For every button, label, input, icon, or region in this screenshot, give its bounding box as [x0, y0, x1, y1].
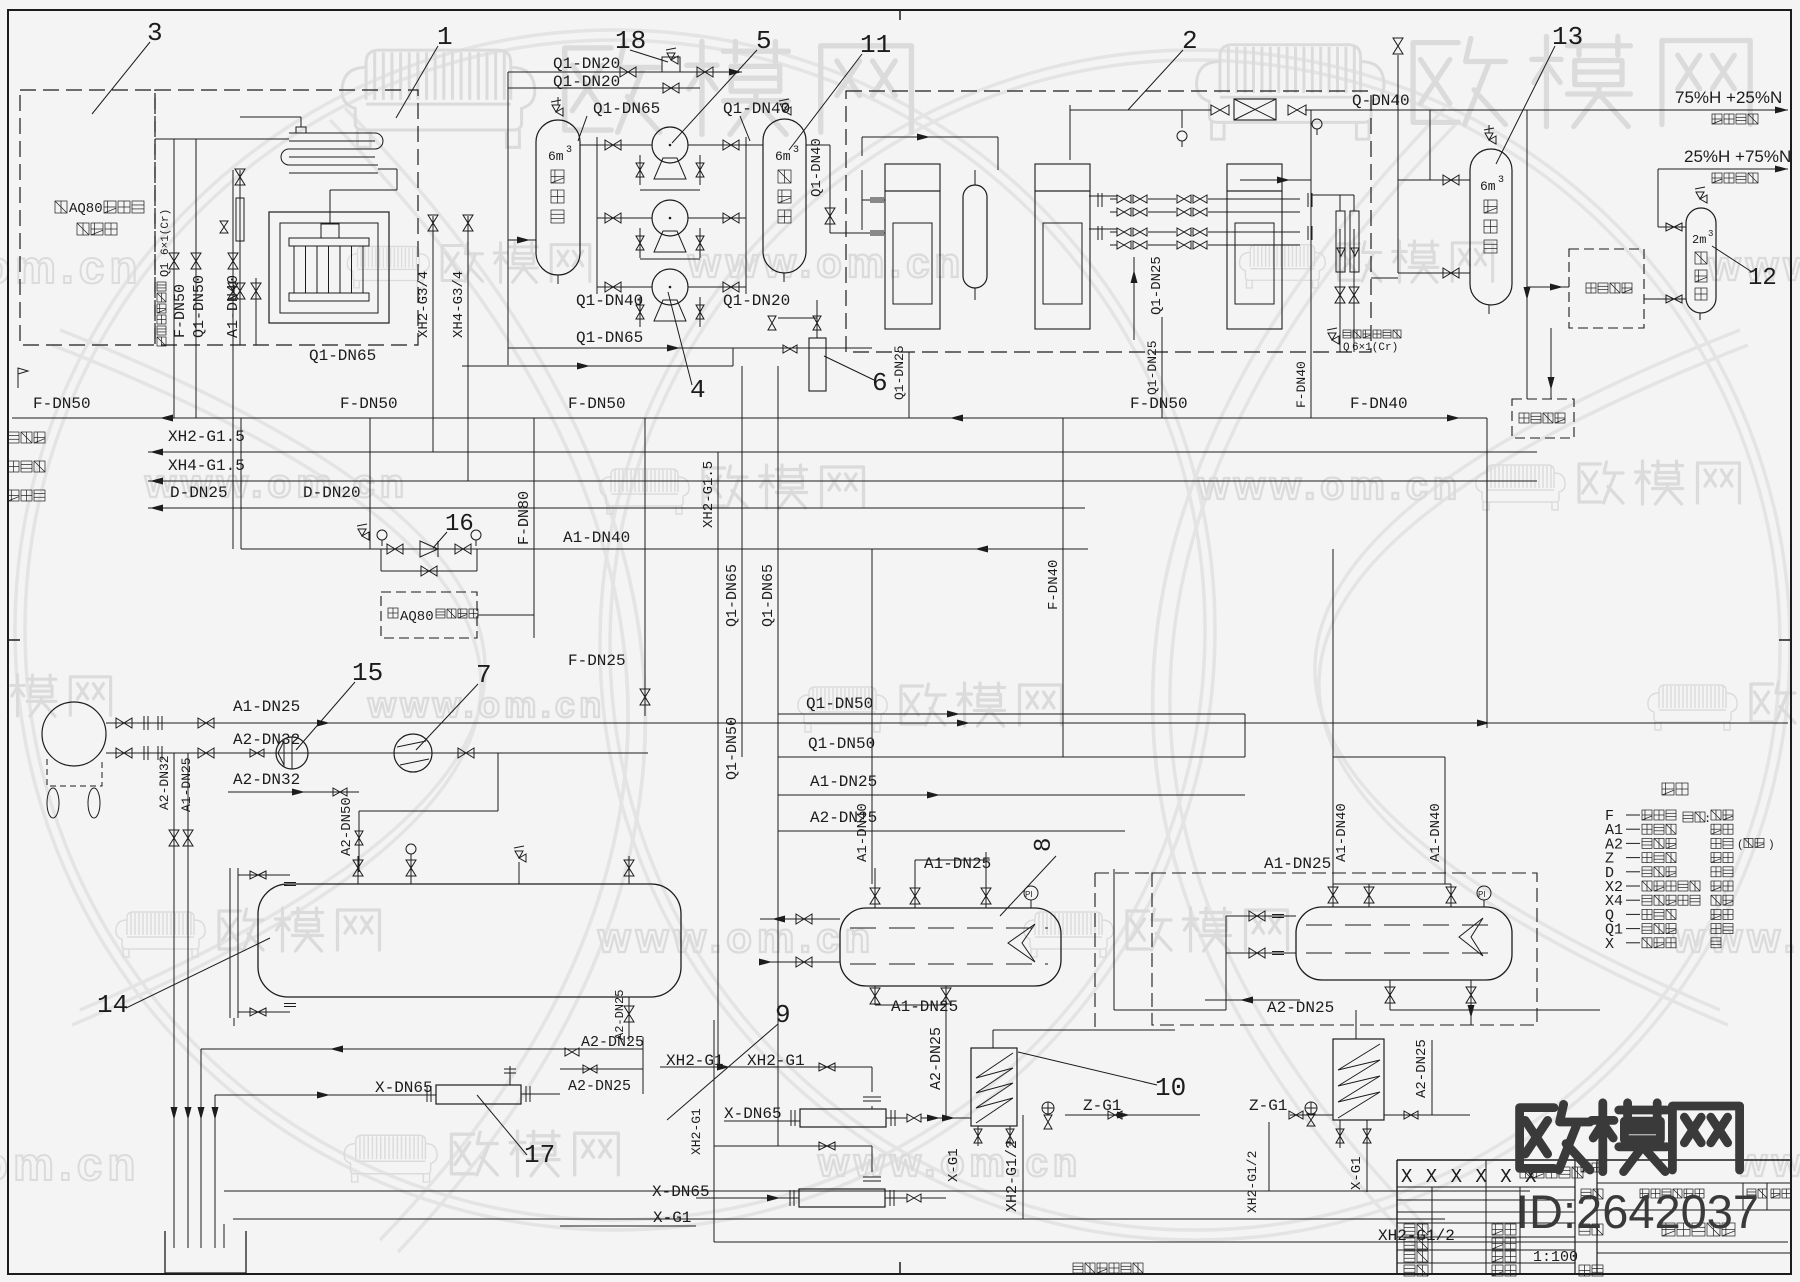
pump 7 — [394, 734, 432, 772]
vertical Q1-DN25 in box2 — [1133, 257, 1135, 340]
pipe Q1-DN50 upper — [778, 713, 1245, 715]
dashed box - nitrogen purification — [1512, 399, 1574, 438]
svg-text:Q1-DN20: Q1-DN20 — [723, 292, 790, 310]
supply line XH4-G1.5 — [148, 480, 1537, 482]
tank 8 top valves — [874, 884, 876, 908]
svg-text:XH2-G1.5: XH2-G1.5 — [701, 461, 717, 528]
svg-text:Q1-DN65: Q1-DN65 — [593, 100, 660, 118]
svg-text:Q1-DN25: Q1-DN25 — [1145, 340, 1160, 395]
svg-text:Q1: Q1 — [158, 263, 172, 277]
svg-text:Q1-DN20: Q1-DN20 — [553, 73, 620, 91]
riser A1-DN40 mid — [871, 549, 873, 884]
svg-text:Q1-DN65: Q1-DN65 — [309, 347, 376, 365]
svg-text:Z-G1: Z-G1 — [1249, 1097, 1287, 1115]
riser Q1-DN65 b — [777, 366, 779, 1146]
pipe into right tank area — [1205, 999, 1300, 1001]
title block row labels — [1581, 1189, 1591, 1199]
pump manifolds — [596, 137, 598, 294]
long bottom lines — [224, 1190, 1530, 1192]
svg-text:A2-DN25: A2-DN25 — [1267, 999, 1334, 1017]
svg-text:XH4-G3/4: XH4-G3/4 — [451, 271, 467, 338]
watermark row1 — [342, 50, 535, 147]
water tank — [165, 1231, 246, 1273]
heat exchanger 10 — [971, 1048, 1017, 1126]
left flag vent — [18, 368, 28, 388]
AQ80 box connector — [477, 614, 534, 616]
dashed box - gas mixing room — [1569, 249, 1644, 328]
svg-text:Q1-DN50: Q1-DN50 — [724, 717, 741, 780]
right tank left inlet valves — [1226, 915, 1296, 917]
tank 14 bottom nozzle — [628, 997, 630, 1041]
tank 8 bottom — [874, 986, 876, 1005]
svg-text:XH2-G3/4: XH2-G3/4 — [416, 271, 432, 338]
svg-text:XH2-G1/2: XH2-G1/2 — [1004, 1140, 1021, 1212]
pipe F-DN25 stub — [644, 418, 646, 716]
piping above U1 — [861, 137, 863, 156]
pump bypass frame — [640, 189, 700, 191]
svg-text:Q1-DN65: Q1-DN65 — [760, 564, 777, 627]
svg-text:F-DN40: F-DN40 — [1046, 560, 1062, 610]
svg-text:3: 3 — [793, 145, 799, 156]
svg-text:AQ80: AQ80 — [69, 201, 103, 217]
svg-text:A2-DN50: A2-DN50 — [339, 797, 355, 856]
product line 25%H+75%N — [1658, 168, 1788, 170]
steam trap after HX10 — [1042, 1102, 1054, 1114]
pipe A2 loop right — [458, 748, 474, 758]
heat exchanger coil — [281, 133, 383, 173]
svg-text:A1-DN25: A1-DN25 — [924, 855, 991, 873]
svg-text:Q1-DN50: Q1-DN50 — [808, 735, 875, 753]
risers XH2/XH4-G3/4 — [432, 216, 434, 452]
svg-text:7: 7 — [476, 660, 492, 690]
svg-text:www.om.cn: www.om.cn — [1671, 914, 1800, 961]
svg-text:X: X — [1605, 936, 1614, 953]
svg-text:PI: PI — [1478, 890, 1486, 899]
svg-text:PI: PI — [1025, 890, 1033, 899]
supply line XH2-G1.5 — [148, 451, 1537, 453]
main header F-DN50 — [12, 417, 1487, 419]
valve and vent 18 — [620, 67, 636, 77]
svg-text:3: 3 — [566, 145, 572, 156]
svg-text:6m: 6m — [548, 149, 564, 164]
svg-text:6×1(Cr): 6×1(Cr) — [160, 209, 172, 255]
svg-text:15: 15 — [352, 658, 383, 688]
svg-text:Z-G1: Z-G1 — [1083, 1097, 1121, 1115]
svg-text:A1-DN40: A1-DN40 — [225, 275, 242, 338]
svg-text:18: 18 — [615, 26, 646, 56]
svg-text:A1-DN40: A1-DN40 — [1334, 803, 1350, 862]
svg-text:6: 6 — [872, 368, 888, 398]
pipe Q1-DN20 line b — [508, 87, 700, 89]
svg-text:Q1-DN40: Q1-DN40 — [723, 100, 790, 118]
buffer tank D 2m3 — [1686, 208, 1716, 313]
pipe A2-DN32 from trailer — [106, 752, 648, 754]
svg-text:A1-DN40: A1-DN40 — [563, 529, 630, 547]
svg-text:A1-DN40: A1-DN40 — [1428, 803, 1444, 862]
pump suction/discharge valves — [605, 140, 621, 150]
small vessel 6 — [809, 338, 826, 391]
svg-text:X-G1: X-G1 — [1349, 1156, 1365, 1190]
pipe A2-DN32 lower — [228, 791, 359, 793]
mixer 15 — [276, 737, 308, 769]
tank 8 vessel — [840, 908, 1061, 986]
supply line D-DN25/D-DN20 — [148, 507, 1085, 509]
furnace room label — [55, 201, 67, 213]
gas trailer — [42, 702, 106, 766]
svg-text:2: 2 — [1182, 26, 1198, 56]
svg-text:16: 16 — [445, 511, 474, 538]
svg-text:D-DN20: D-DN20 — [303, 484, 361, 502]
vertical pipes from furnace box — [173, 139, 175, 418]
svg-text:Q1-DN65: Q1-DN65 — [576, 329, 643, 347]
pump P2 — [652, 200, 688, 236]
svg-text:Q1-DN40: Q1-DN40 — [809, 138, 825, 197]
svg-text:Q1-DN40: Q1-DN40 — [576, 292, 643, 310]
svg-text:F-DN50: F-DN50 — [1130, 395, 1188, 413]
svg-text:6m: 6m — [775, 149, 791, 164]
svg-text:A2-DN32: A2-DN32 — [233, 771, 300, 789]
box2 right flow meters — [1339, 229, 1341, 352]
riser XH2-G1.5 vertical — [717, 452, 719, 1067]
small capsule between U1/U2 — [963, 185, 987, 288]
watermark row5 — [116, 912, 205, 957]
svg-text:25%H +75%N: 25%H +75%N — [1684, 147, 1791, 166]
title block table — [1396, 1160, 1398, 1274]
riser F-DN40 mid — [1062, 418, 1064, 757]
pipe Q1-DN50 lower — [778, 756, 1245, 758]
tank 14 vessel — [258, 884, 681, 997]
dryer unit U2 — [1035, 164, 1090, 191]
svg-text:F-DN80: F-DN80 — [516, 491, 533, 545]
filter F2 — [714, 1145, 872, 1147]
riser A1-DN40 right pair — [1332, 549, 1334, 884]
valve group 16 — [380, 549, 382, 571]
pipe A2-DN25 return upper — [201, 1048, 643, 1050]
svg-text:www.om.cn: www.om.cn — [367, 684, 606, 725]
svg-text:F-DN50: F-DN50 — [568, 395, 626, 413]
svg-text:om.cn: om.cn — [0, 1138, 140, 1190]
svg-text:F-DN50: F-DN50 — [340, 395, 398, 413]
dashed box - AQ80 pressure reducing valve group — [381, 592, 477, 638]
svg-text:75%H +25%N: 75%H +25%N — [1675, 88, 1782, 107]
svg-text:A1-DN25: A1-DN25 — [1264, 855, 1331, 873]
svg-text:17: 17 — [524, 1140, 555, 1170]
pump P1 — [652, 127, 688, 163]
pipe A1-DN25 middle — [778, 794, 1245, 796]
tank 14 standpipe — [229, 868, 231, 1018]
svg-text:Q1-DN65: Q1-DN65 — [724, 564, 741, 627]
dashed enclosure 2 - purification unit — [846, 91, 1371, 352]
svg-text:A2-DN25: A2-DN25 — [928, 1027, 945, 1090]
svg-text:X-DN65: X-DN65 — [724, 1105, 782, 1123]
riser Q1-DN65 a — [741, 366, 743, 757]
tank D piping — [1657, 169, 1659, 227]
svg-text:A2-DN25: A2-DN25 — [1414, 1039, 1430, 1098]
main vertical to purification — [1526, 110, 1528, 399]
svg-text:X-G1: X-G1 — [653, 1209, 691, 1227]
svg-text:XH2-G1/2: XH2-G1/2 — [1245, 1151, 1260, 1213]
svg-text:Q-DN40: Q-DN40 — [1352, 92, 1410, 110]
svg-text:F-DN50: F-DN50 — [172, 284, 189, 338]
svg-text:A1-DN25: A1-DN25 — [233, 698, 300, 716]
svg-text:Q1-DN50: Q1-DN50 — [806, 695, 873, 713]
buffer tank C 6m3 — [1470, 149, 1512, 305]
right steam tank vessel — [1296, 907, 1512, 980]
svg-text:A1-DN40: A1-DN40 — [855, 803, 871, 862]
svg-text:F-DN50: F-DN50 — [33, 395, 91, 413]
furnace body — [269, 212, 389, 323]
svg-text:9: 9 — [775, 1000, 791, 1030]
svg-text:A2-DN32: A2-DN32 — [233, 731, 300, 749]
svg-text:3: 3 — [1498, 175, 1504, 186]
svg-text:X-DN65: X-DN65 — [375, 1079, 433, 1097]
dryer unit U3 — [1227, 164, 1282, 191]
pipe Q1-DN65 pump discharge header — [508, 347, 872, 349]
riser Q1-DN25 box2-a — [908, 352, 910, 418]
svg-text:Q1-DN20: Q1-DN20 — [553, 55, 620, 73]
svg-text:13: 13 — [1552, 22, 1583, 52]
svg-text:F-DN40: F-DN40 — [1350, 395, 1408, 413]
svg-text:3: 3 — [1708, 229, 1713, 239]
svg-text:14: 14 — [97, 990, 128, 1020]
svg-text:A2-DN25: A2-DN25 — [613, 990, 627, 1040]
factory steam note — [1073, 1263, 1083, 1273]
riser F-DN40 from box2 — [1310, 352, 1312, 418]
svg-text:D-DN25: D-DN25 — [170, 484, 228, 502]
svg-text:): ) — [1768, 839, 1775, 851]
svg-text:4: 4 — [690, 375, 706, 405]
pressure tap risers valve group — [369, 418, 371, 549]
tank 14 top nozzles — [357, 856, 359, 884]
pipe Q1-DN20 line a — [508, 71, 742, 73]
pipe lower header — [462, 365, 733, 367]
dryer unit U1 — [885, 164, 940, 191]
pipe A2-DN25 middle — [778, 830, 1125, 832]
risers to water tank — [173, 753, 175, 1231]
svg-text:ID:2642037: ID:2642037 — [1516, 1185, 1759, 1238]
furnace feed meter — [239, 170, 241, 345]
svg-text:www.om.cn: www.om.cn — [597, 914, 875, 961]
svg-text:Q1-DN25: Q1-DN25 — [1149, 256, 1165, 315]
svg-text:8: 8 — [1031, 838, 1058, 852]
svg-text:F-DN40: F-DN40 — [1294, 361, 1309, 408]
right tank inlet runs — [1113, 869, 1115, 1010]
svg-text:XH2-G1: XH2-G1 — [689, 1108, 704, 1155]
svg-text:X-DN65: X-DN65 — [652, 1183, 710, 1201]
svg-text:6×1(Cr): 6×1(Cr) — [1352, 342, 1398, 354]
svg-text:Q: Q — [1343, 342, 1350, 354]
right tank top valves — [1332, 884, 1334, 907]
svg-text:A2-DN25: A2-DN25 — [581, 1034, 644, 1051]
pipe A1-DN25 from trailer — [106, 722, 1788, 724]
svg-text:(: ( — [1737, 839, 1744, 851]
pipe A1-DN40 horizontal — [241, 548, 1088, 550]
svg-text:A2-DN32: A2-DN32 — [157, 755, 172, 810]
right tank bottom — [1389, 980, 1391, 1010]
svg-text:A1-DN25: A1-DN25 — [891, 998, 958, 1016]
tank 8 left inlet valves — [760, 918, 840, 920]
svg-text:10: 10 — [1155, 1073, 1186, 1103]
svg-text:F-DN25: F-DN25 — [568, 652, 626, 670]
svg-text:A1-DN25: A1-DN25 — [810, 773, 877, 791]
tank C inlet valves — [1398, 179, 1470, 181]
mid header drops — [1244, 714, 1246, 757]
box2 top piping w/ filter — [1069, 105, 1071, 160]
svg-text:www.om.cn: www.om.cn — [1197, 464, 1462, 508]
svg-text:A2-DN25: A2-DN25 — [568, 1078, 631, 1095]
legend — [1662, 783, 1674, 795]
svg-text:1: 1 — [437, 22, 453, 52]
svg-text:www.om.cn: www.om.cn — [687, 239, 965, 286]
site watermark OUMOWANG large — [1520, 1104, 1590, 1170]
valve clusters between U2 and U3 — [1089, 195, 1117, 197]
svg-text:Q1-DN50: Q1-DN50 — [191, 275, 208, 338]
svg-text:XH2-G1/2: XH2-G1/2 — [1378, 1227, 1455, 1245]
svg-text:Q1-DN25: Q1-DN25 — [892, 345, 907, 400]
product line 75%H+25%N — [1430, 109, 1788, 111]
riser Q1-DN25 box2-b — [1161, 317, 1163, 418]
pump P3 — [652, 269, 688, 305]
svg-text:6m: 6m — [1480, 179, 1496, 194]
nitrogen purification connections — [1371, 277, 1398, 279]
dashed enclosure around steam tank right — [1152, 873, 1537, 1025]
svg-text::: : — [1704, 812, 1711, 826]
pipe F-DN80 riser — [533, 418, 535, 638]
pipe Q1-DN40 tank B right — [806, 144, 830, 146]
buffer tank B 6m3 — [763, 119, 806, 273]
svg-text:X-G1: X-G1 — [946, 1148, 962, 1182]
svg-text:11: 11 — [860, 30, 891, 60]
buffer tank A 6m3 — [536, 120, 580, 275]
sample label in box2 — [1328, 333, 1339, 344]
svg-text:A1-DN25: A1-DN25 — [179, 757, 194, 812]
dashed enclosure 3 - ammonia furnace room — [20, 90, 155, 345]
svg-text:12: 12 — [1748, 265, 1777, 292]
svg-text:5: 5 — [756, 26, 772, 56]
svg-text:AQ80: AQ80 — [400, 609, 434, 625]
dashed enclosure 1 — [155, 90, 418, 345]
svg-text:om.cn: om.cn — [0, 241, 142, 293]
heat exchanger 17b right — [1333, 1039, 1384, 1120]
svg-text:2m: 2m — [1692, 233, 1706, 247]
svg-text:1:100: 1:100 — [1533, 1249, 1578, 1266]
